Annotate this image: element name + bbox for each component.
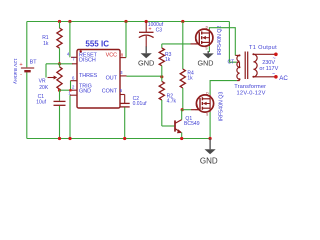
svg-text:AC: AC: [279, 75, 288, 82]
wire VCC top rail: [27, 21, 230, 23]
node junction bottom rail Q3 source: [209, 137, 212, 140]
wire Q3 gate segment: [191, 109, 196, 111]
capacitor C1 labels: [36, 94, 46, 105]
svg-text:1k: 1k: [43, 41, 49, 47]
label RESET pin: [79, 53, 98, 59]
node junction R1 bottom: [58, 62, 61, 65]
transformer labels: [234, 84, 266, 97]
wire pin 8 stub: [120, 57, 126, 59]
node junction top rail at R1: [58, 20, 61, 23]
transistor Q3 IRF540N: [196, 91, 214, 116]
svg-text:GND: GND: [198, 58, 214, 67]
wire battery positive riser: [26, 22, 28, 68]
wire Q2 gate segment: [191, 43, 196, 45]
transformer T1: [235, 52, 257, 81]
potentiometer VR labels: [39, 79, 49, 91]
battery BT designator: [30, 60, 38, 66]
transistor Q1: [175, 110, 182, 139]
wire GND pin1 drop: [69, 95, 71, 138]
wire VCC to center tap: [229, 22, 236, 63]
wire TRIG horizontal: [60, 89, 73, 91]
svg-text:6: 6: [72, 76, 75, 81]
svg-text:BT: BT: [30, 60, 38, 66]
wire RESET pin4 riser: [69, 22, 71, 58]
svg-text:Transformer: Transformer: [234, 84, 266, 90]
node junction THRES TRIG: [69, 89, 72, 92]
wire GND bottom rail: [27, 138, 210, 140]
svg-text:~: ~: [272, 71, 275, 77]
wire VCC pin8 riser: [125, 22, 127, 58]
wire R3 to Q2 gate: [162, 43, 191, 45]
wire OUT to R3 R2 node: [127, 75, 162, 77]
svg-text:12V-0-12V: 12V-0-12V: [237, 91, 266, 97]
wire pin 5 stub: [120, 94, 125, 96]
op-amp 555 IC U1 box: [77, 50, 120, 109]
pin number 7: [72, 57, 75, 62]
potentiometer VR: [46, 64, 62, 90]
resistor R3: [159, 44, 164, 77]
resistor R4 labels: [187, 71, 194, 82]
pin number 6: [72, 76, 75, 81]
node output terminal bottom: [274, 75, 278, 79]
transistor Q2 IRF540N: [195, 26, 213, 51]
resistor R4: [180, 22, 185, 110]
wire DISCH horizontal: [46, 63, 73, 65]
transistor Q1 labels: [184, 116, 200, 127]
node output terminal top: [274, 53, 278, 57]
wire THRES link: [70, 81, 72, 91]
svg-text:+: +: [19, 62, 22, 68]
ground bottom rail: [200, 139, 218, 166]
node junction bottom rail pin1: [68, 137, 71, 140]
label OUT pin: [106, 76, 118, 82]
resistor R1 labels: [42, 35, 49, 47]
svg-text:VR: VR: [39, 79, 46, 85]
svg-text:D: D: [206, 91, 209, 95]
label DISCH pin: [79, 58, 96, 64]
svg-text:4: 4: [67, 52, 70, 57]
svg-text:IRF540N Q3: IRF540N Q3: [219, 92, 225, 122]
label CT: [227, 59, 234, 65]
svg-text:7: 7: [72, 57, 75, 62]
transformer T1 name label: [249, 45, 277, 51]
svg-text:5: 5: [120, 88, 123, 93]
battery BT plates: [19, 62, 34, 78]
label GND pin: [79, 88, 91, 94]
svg-text:THRES: THRES: [79, 73, 98, 79]
node stray dot inside IC: [80, 50, 82, 52]
pin number 2: [72, 85, 75, 90]
label VCC pin: [106, 52, 117, 58]
svg-text:or 117V: or 117V: [259, 66, 278, 72]
svg-text:1k: 1k: [187, 76, 193, 82]
svg-text:S: S: [205, 47, 207, 51]
wire pin 3 stub: [120, 75, 127, 77]
pin number 1: [68, 90, 71, 95]
svg-text:DISCH: DISCH: [79, 58, 96, 64]
wire pin 1 stub: [70, 94, 77, 96]
ground below C3: [138, 47, 154, 68]
capacitor C2 labels: [133, 96, 148, 107]
node junction bottom rail C2: [123, 137, 126, 140]
ground below Q2: [198, 46, 214, 67]
svg-text:S: S: [206, 112, 208, 116]
transistor Q2 label: [217, 26, 223, 56]
label 230V: [262, 60, 275, 66]
svg-text:4.7k: 4.7k: [167, 99, 177, 105]
resistor R1: [57, 22, 62, 64]
svg-text:20K: 20K: [39, 85, 49, 91]
resistor R2: [159, 77, 174, 126]
capacitor C3: [139, 22, 154, 48]
svg-text:12V Battery: 12V Battery: [12, 58, 18, 84]
svg-text:OUT: OUT: [106, 76, 118, 82]
label CONT pin: [102, 89, 118, 95]
battery 12V Battery label: [12, 58, 18, 84]
svg-text:CONT: CONT: [102, 89, 118, 95]
node junction bottom rail C1: [58, 137, 61, 140]
label THRES pin: [79, 73, 98, 79]
wire pin 7 stub: [72, 63, 77, 65]
resistor R2 labels: [167, 94, 177, 105]
svg-text:1k: 1k: [165, 57, 171, 63]
op-amp 555 IC title: [85, 40, 109, 49]
svg-text:T1 Output: T1 Output: [249, 45, 277, 51]
svg-text:CT: CT: [227, 59, 234, 65]
label or 117V: [259, 66, 278, 72]
svg-text:1: 1: [68, 90, 71, 95]
svg-text:BC549: BC549: [184, 121, 200, 127]
node junction R4 Q1 collector Q3 gate: [181, 108, 184, 111]
svg-text:IRF540N Q2: IRF540N Q2: [217, 26, 223, 56]
svg-text:VCC: VCC: [106, 52, 117, 58]
wire output bottom: [253, 76, 275, 78]
wire Q3 source to rail: [209, 112, 211, 139]
node junction VR bottom THRES TRIG: [58, 89, 61, 92]
capacitor C1: [54, 90, 66, 138]
capacitor C2: [120, 95, 130, 139]
pin number 3: [120, 70, 123, 75]
node junction bottom rail Q1 emitter: [180, 137, 183, 140]
label AC tilde top: [273, 56, 276, 62]
svg-text:GND: GND: [200, 156, 218, 165]
node junction top rail at R4: [181, 20, 184, 23]
svg-text:10uf: 10uf: [36, 99, 46, 105]
resistor R3 labels: [165, 52, 172, 63]
svg-text:0.01uf: 0.01uf: [133, 101, 148, 107]
svg-text:GND: GND: [79, 88, 91, 94]
pin number 8: [121, 52, 124, 57]
wire pin 6 stub: [71, 80, 78, 82]
svg-text:555 IC: 555 IC: [85, 40, 109, 49]
wire pin 2 stub: [72, 89, 77, 91]
svg-text:2: 2: [72, 85, 75, 90]
pin number 5: [120, 88, 123, 93]
svg-text:3: 3: [120, 70, 123, 75]
node junction top rail at C3: [145, 20, 148, 23]
svg-text:C3: C3: [156, 27, 163, 33]
node junction top rail at pin8 wire: [124, 20, 127, 23]
wire node to Q3 gate: [182, 109, 191, 111]
wire battery negative drop: [26, 72, 28, 138]
svg-text:-: -: [20, 72, 22, 78]
wire output top: [253, 53, 275, 55]
node junction OUT R3 R2: [160, 75, 163, 78]
label AC tilde bottom: [272, 71, 275, 77]
label AC: [279, 75, 288, 82]
svg-text:GND: GND: [138, 59, 154, 68]
pin number 4: [67, 52, 70, 57]
svg-text:D: D: [206, 26, 209, 30]
svg-text:8: 8: [121, 52, 124, 57]
capacitor C3 labels: [148, 22, 164, 33]
label TRIG pin: [79, 83, 92, 89]
wire Q3 drain to transformer: [210, 81, 237, 95]
wire Q2 drain to transformer: [209, 28, 235, 56]
transistor Q3 label: [219, 92, 225, 122]
node junction top rail at pin4 wire: [68, 20, 71, 23]
wire pin 4 stub: [71, 56, 77, 58]
